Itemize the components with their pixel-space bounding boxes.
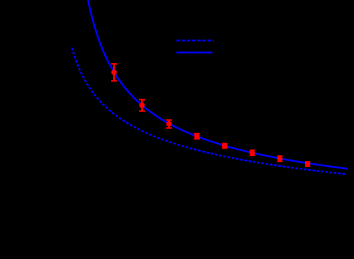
- legend dotted line sample: [176, 40, 214, 42]
- data point 6 error bar and marker: [249, 150, 255, 156]
- data point 4 error bar and marker: [194, 133, 200, 139]
- data point 5 error bar and marker: [222, 143, 228, 149]
- dotted blue curve (lower bound curve): [72, 48, 346, 174]
- data point 7 error bar and marker: [277, 156, 283, 162]
- data point 1 error bar and marker: [111, 64, 117, 81]
- legend solid line sample: [176, 52, 212, 54]
- solid blue curve (fit through data points): [88, 0, 348, 169]
- data point 2 error bar and marker: [139, 100, 145, 111]
- data point 3 error bar and marker: [166, 120, 172, 128]
- data point 8 error bar and marker: [305, 161, 311, 167]
